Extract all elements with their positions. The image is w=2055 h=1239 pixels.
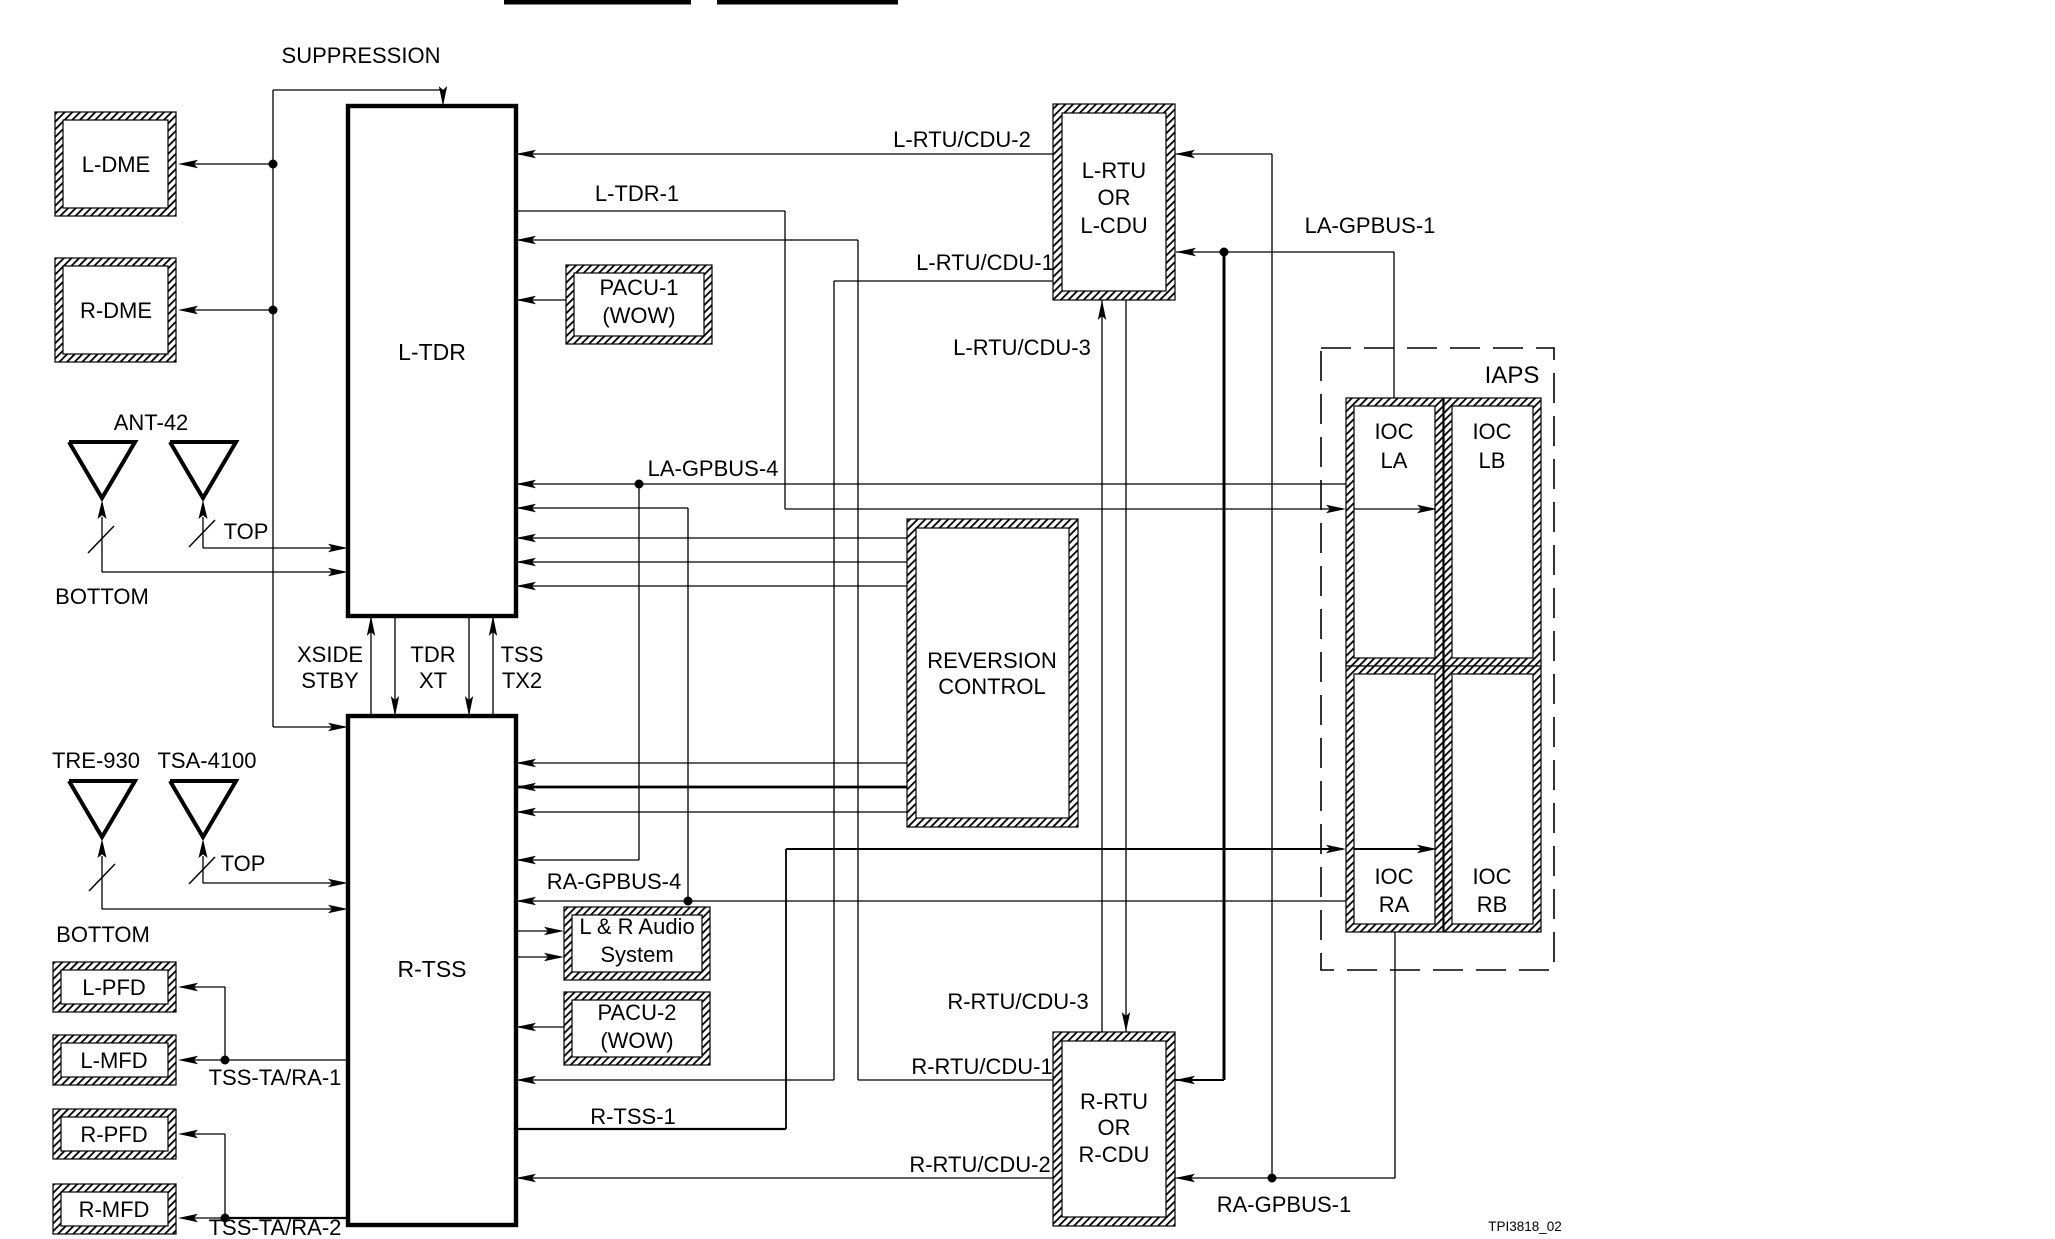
- svg-text:TDR: TDR: [410, 642, 455, 667]
- svg-text:TSS: TSS: [501, 642, 544, 667]
- svg-text:L-RTU/CDU-2: L-RTU/CDU-2: [893, 127, 1031, 152]
- svg-text:System: System: [600, 942, 673, 967]
- svg-text:OR: OR: [1098, 185, 1131, 210]
- node junction RA-GPBUS-1: [1268, 1174, 1277, 1183]
- svg-text:TSS-TA/RA-1: TSS-TA/RA-1: [209, 1065, 342, 1090]
- node junction LA-GPBUS-4: [635, 480, 644, 489]
- svg-text:TRE-930: TRE-930: [52, 748, 140, 773]
- wire to L-DME: [194, 163, 273, 165]
- R-DME unit box: [55, 258, 176, 362]
- svg-text:TPI3818_02: TPI3818_02: [1488, 1219, 1562, 1234]
- svg-text:STBY: STBY: [301, 668, 359, 693]
- wire TSS-TA/RA-2 trunk: [225, 1217, 348, 1219]
- IOC LB box: [1444, 398, 1541, 666]
- svg-text:R-TSS: R-TSS: [398, 956, 467, 982]
- wire PACU-1 to L-TDR: [516, 299, 566, 301]
- wire to R-DME: [194, 309, 273, 311]
- svg-text:R-MFD: R-MFD: [79, 1197, 150, 1222]
- wire SUPPRESSION vertical: [272, 90, 274, 727]
- svg-text:RA: RA: [1379, 892, 1410, 917]
- wire branch to L-PFD: [224, 987, 226, 1060]
- wire XSIDE STBY down: [394, 616, 396, 716]
- svg-text:L-DME: L-DME: [82, 152, 150, 177]
- svg-text:REVERSION: REVERSION: [927, 648, 1057, 673]
- wire to L&R audio 1: [516, 930, 555, 932]
- svg-text:L-TDR-1: L-TDR-1: [595, 181, 679, 206]
- svg-text:(WOW): (WOW): [602, 303, 675, 328]
- REVERSION CONTROL box: [907, 519, 1078, 827]
- wire SUPPRESSION into R-TSS: [273, 726, 345, 728]
- svg-text:L-RTU: L-RTU: [1082, 158, 1146, 183]
- svg-text:BOTTOM: BOTTOM: [55, 584, 149, 609]
- svg-text:PACU-1: PACU-1: [599, 275, 678, 300]
- L & R Audio System box: [564, 907, 710, 980]
- svg-text:TSA-4100: TSA-4100: [157, 748, 256, 773]
- wire antenna bottom to L-TDR: [101, 517, 103, 572]
- svg-text:XT: XT: [419, 668, 447, 693]
- wire L-TDR-1 to IOC LA: [785, 508, 1343, 510]
- svg-text:LA-GPBUS-4: LA-GPBUS-4: [648, 456, 779, 481]
- svg-text:R-DME: R-DME: [80, 298, 152, 323]
- antenna feed arrow up TSA-4100: [199, 839, 208, 858]
- svg-text:LB: LB: [1479, 448, 1506, 473]
- slash feed mark: [88, 526, 114, 553]
- svg-text:(WOW): (WOW): [600, 1028, 673, 1053]
- wire RA-GPBUS-4 to R-TSS and IOC RA: [516, 900, 1346, 902]
- wire into R-MFD: [194, 1217, 225, 1219]
- svg-text:R-RTU/CDU-2: R-RTU/CDU-2: [909, 1152, 1050, 1177]
- wire R-RTU/CDU-3: [1125, 300, 1127, 1032]
- wire RA-GPBUS-1 to R-RTU: [1175, 1177, 1395, 1179]
- R-TSS transponder box: [348, 716, 516, 1225]
- wire RA-GPBUS-4 branch to L-TDR: [516, 507, 688, 509]
- top rule bar right: [717, 0, 898, 5]
- wire reversion to R-TSS 2 (thick): [516, 786, 907, 789]
- svg-text:L-TDR: L-TDR: [398, 339, 466, 365]
- wire LA-GPBUS-4 branch to R-TSS: [638, 484, 640, 860]
- svg-text:TSS-TA/RA-2: TSS-TA/RA-2: [209, 1215, 342, 1239]
- svg-text:BOTTOM: BOTTOM: [56, 922, 150, 947]
- R-RTU OR R-CDU box: [1053, 1032, 1175, 1226]
- svg-text:TOP: TOP: [224, 519, 269, 544]
- L-PFD display box: [53, 962, 176, 1012]
- wire LA-GPBUS-4 to L-TDR: [516, 483, 1346, 485]
- wire vertical x1272 to RA-GPBUS-1: [1271, 154, 1273, 1178]
- svg-text:RA-GPBUS-4: RA-GPBUS-4: [547, 869, 681, 894]
- R-MFD display box: [53, 1184, 176, 1234]
- IOC RB box: [1444, 666, 1541, 932]
- wire TSS-TA/RA-1 trunk: [225, 1059, 348, 1061]
- wire R-TSS-1 inside IOC RA: [1354, 848, 1433, 850]
- L-RTU OR L-CDU box: [1053, 104, 1175, 300]
- svg-text:OR: OR: [1098, 1115, 1131, 1140]
- svg-text:IOC: IOC: [1472, 419, 1511, 444]
- wire L-RTU/CDU-1 to L-RTU: [834, 280, 1053, 282]
- svg-text:L-MFD: L-MFD: [80, 1048, 147, 1073]
- svg-text:RB: RB: [1477, 892, 1508, 917]
- wire to L&R audio 2: [516, 956, 555, 958]
- svg-text:L-RTU/CDU-1: L-RTU/CDU-1: [916, 250, 1054, 275]
- svg-text:SUPPRESSION: SUPPRESSION: [282, 43, 441, 68]
- svg-text:CONTROL: CONTROL: [938, 674, 1046, 699]
- node junction TSS-TA/RA-2: [221, 1214, 230, 1223]
- L-MFD display box: [53, 1035, 176, 1085]
- slash feed mark: [89, 864, 115, 891]
- wire L-RTU/CDU-2 east of L-RTU: [1175, 153, 1272, 155]
- wire reversion to R-TSS 1: [516, 762, 907, 764]
- wire reversion to R-TSS 3: [516, 811, 907, 813]
- wire PACU-2 to R-TSS: [516, 1026, 564, 1028]
- L-DME unit box: [55, 112, 176, 216]
- wire vertical x834: [833, 281, 835, 1080]
- svg-text:PACU-2: PACU-2: [597, 1000, 676, 1025]
- antenna TSA-4100: [170, 781, 236, 837]
- node junction R-DME tap: [269, 306, 278, 315]
- wire XSIDE STBY up: [370, 616, 372, 716]
- wire reversion to L-TDR 2: [516, 561, 907, 563]
- slash feed mark: [189, 520, 215, 547]
- svg-text:L & R Audio: L & R Audio: [579, 914, 694, 939]
- svg-text:IOC: IOC: [1472, 864, 1511, 889]
- wire LA-GPBUS-1 from IOC LA: [1393, 252, 1395, 398]
- wire TSS TX2 up: [492, 616, 494, 716]
- wire vertical x858: [857, 240, 859, 1080]
- antenna ANT-42 right (top): [170, 442, 236, 498]
- wire L-RTU/CDU-2 L-TDR to L-RTU: [516, 153, 1053, 155]
- node junction TSS-TA/RA-1: [221, 1056, 230, 1065]
- wire L-TDR-1 out: [516, 210, 785, 212]
- node junction LA-GPBUS-1: [1220, 248, 1229, 257]
- svg-text:R-RTU/CDU-1: R-RTU/CDU-1: [911, 1054, 1052, 1079]
- svg-text:LA: LA: [1381, 448, 1408, 473]
- svg-text:R-PFD: R-PFD: [80, 1122, 147, 1147]
- svg-text:R-CDU: R-CDU: [1079, 1142, 1150, 1167]
- PACU-2 (WOW) box: [564, 992, 710, 1065]
- svg-text:TOP: TOP: [221, 851, 266, 876]
- svg-text:L-CDU: L-CDU: [1080, 213, 1147, 238]
- wire R-RTU/CDU-1 into L-TDR: [516, 239, 858, 241]
- wire TDR XT down: [468, 616, 470, 716]
- wire TSA-4100 top to R-TSS: [202, 856, 204, 883]
- antenna feed arrow up TRE-930: [98, 839, 107, 858]
- svg-text:RA-GPBUS-1: RA-GPBUS-1: [1217, 1192, 1351, 1217]
- svg-text:ANT-42: ANT-42: [114, 410, 189, 435]
- wire into R-RTU right upper: [1175, 1079, 1224, 1081]
- PACU-1 (WOW) box: [566, 265, 712, 344]
- wire LA-GPBUS-1 to L-RTU: [1176, 251, 1394, 253]
- wire L-TDR-1 inside IOC LA: [1354, 508, 1433, 510]
- wire thick vertical x1224: [1223, 252, 1226, 1080]
- IOC RA box: [1346, 666, 1443, 932]
- wire R-TSS-1 out (thick): [516, 1128, 786, 1130]
- svg-text:IOC: IOC: [1374, 864, 1413, 889]
- antenna feed arrow up left: [98, 500, 107, 519]
- wire R-TSS-1 to IOC RA: [786, 848, 1343, 850]
- wire reversion to L-TDR 3: [516, 585, 907, 587]
- wire L-RTU/CDU-1 into R-TSS: [516, 1079, 834, 1081]
- svg-text:L-RTU/CDU-3: L-RTU/CDU-3: [953, 335, 1091, 360]
- wire R-RTU/CDU-1 into R-RTU: [858, 1079, 1053, 1081]
- IOC LA box: [1346, 398, 1443, 666]
- wire into L-MFD: [194, 1059, 225, 1061]
- wire RA-GPBUS-1 from IOC RA: [1394, 932, 1396, 1178]
- R-PFD display box: [53, 1109, 176, 1159]
- IAPS dashed enclosure: [1321, 348, 1554, 970]
- antenna ANT-42 left (bottom): [69, 442, 135, 498]
- slash feed mark: [189, 857, 215, 884]
- L-TDR transponder box: [348, 106, 516, 616]
- antenna feed arrow up right: [199, 500, 208, 519]
- node junction RA-GPBUS-4: [684, 897, 693, 906]
- wire L-RTU/CDU-3: [1101, 300, 1103, 1032]
- svg-text:R-TSS-1: R-TSS-1: [590, 1104, 676, 1129]
- svg-text:XSIDE: XSIDE: [297, 642, 363, 667]
- svg-text:LA-GPBUS-1: LA-GPBUS-1: [1305, 213, 1436, 238]
- node junction L-DME tap: [269, 160, 278, 169]
- wire TRE-930 bottom to R-TSS: [101, 856, 103, 909]
- top rule bar left: [504, 0, 691, 5]
- wire R-RTU/CDU-2 to R-TSS: [516, 1177, 1053, 1179]
- svg-text:R-RTU/CDU-3: R-RTU/CDU-3: [947, 989, 1088, 1014]
- svg-text:IOC: IOC: [1374, 419, 1413, 444]
- svg-text:R-RTU: R-RTU: [1080, 1089, 1148, 1114]
- wire branch to R-PFD: [224, 1134, 226, 1218]
- wire SUPPRESSION top run: [273, 89, 443, 91]
- antenna TRE-930: [69, 781, 135, 837]
- svg-text:L-PFD: L-PFD: [82, 975, 146, 1000]
- svg-text:IAPS: IAPS: [1485, 362, 1540, 389]
- svg-text:TX2: TX2: [502, 668, 542, 693]
- wire reversion to L-TDR 1: [516, 537, 907, 539]
- wire antenna top to L-TDR: [202, 517, 204, 548]
